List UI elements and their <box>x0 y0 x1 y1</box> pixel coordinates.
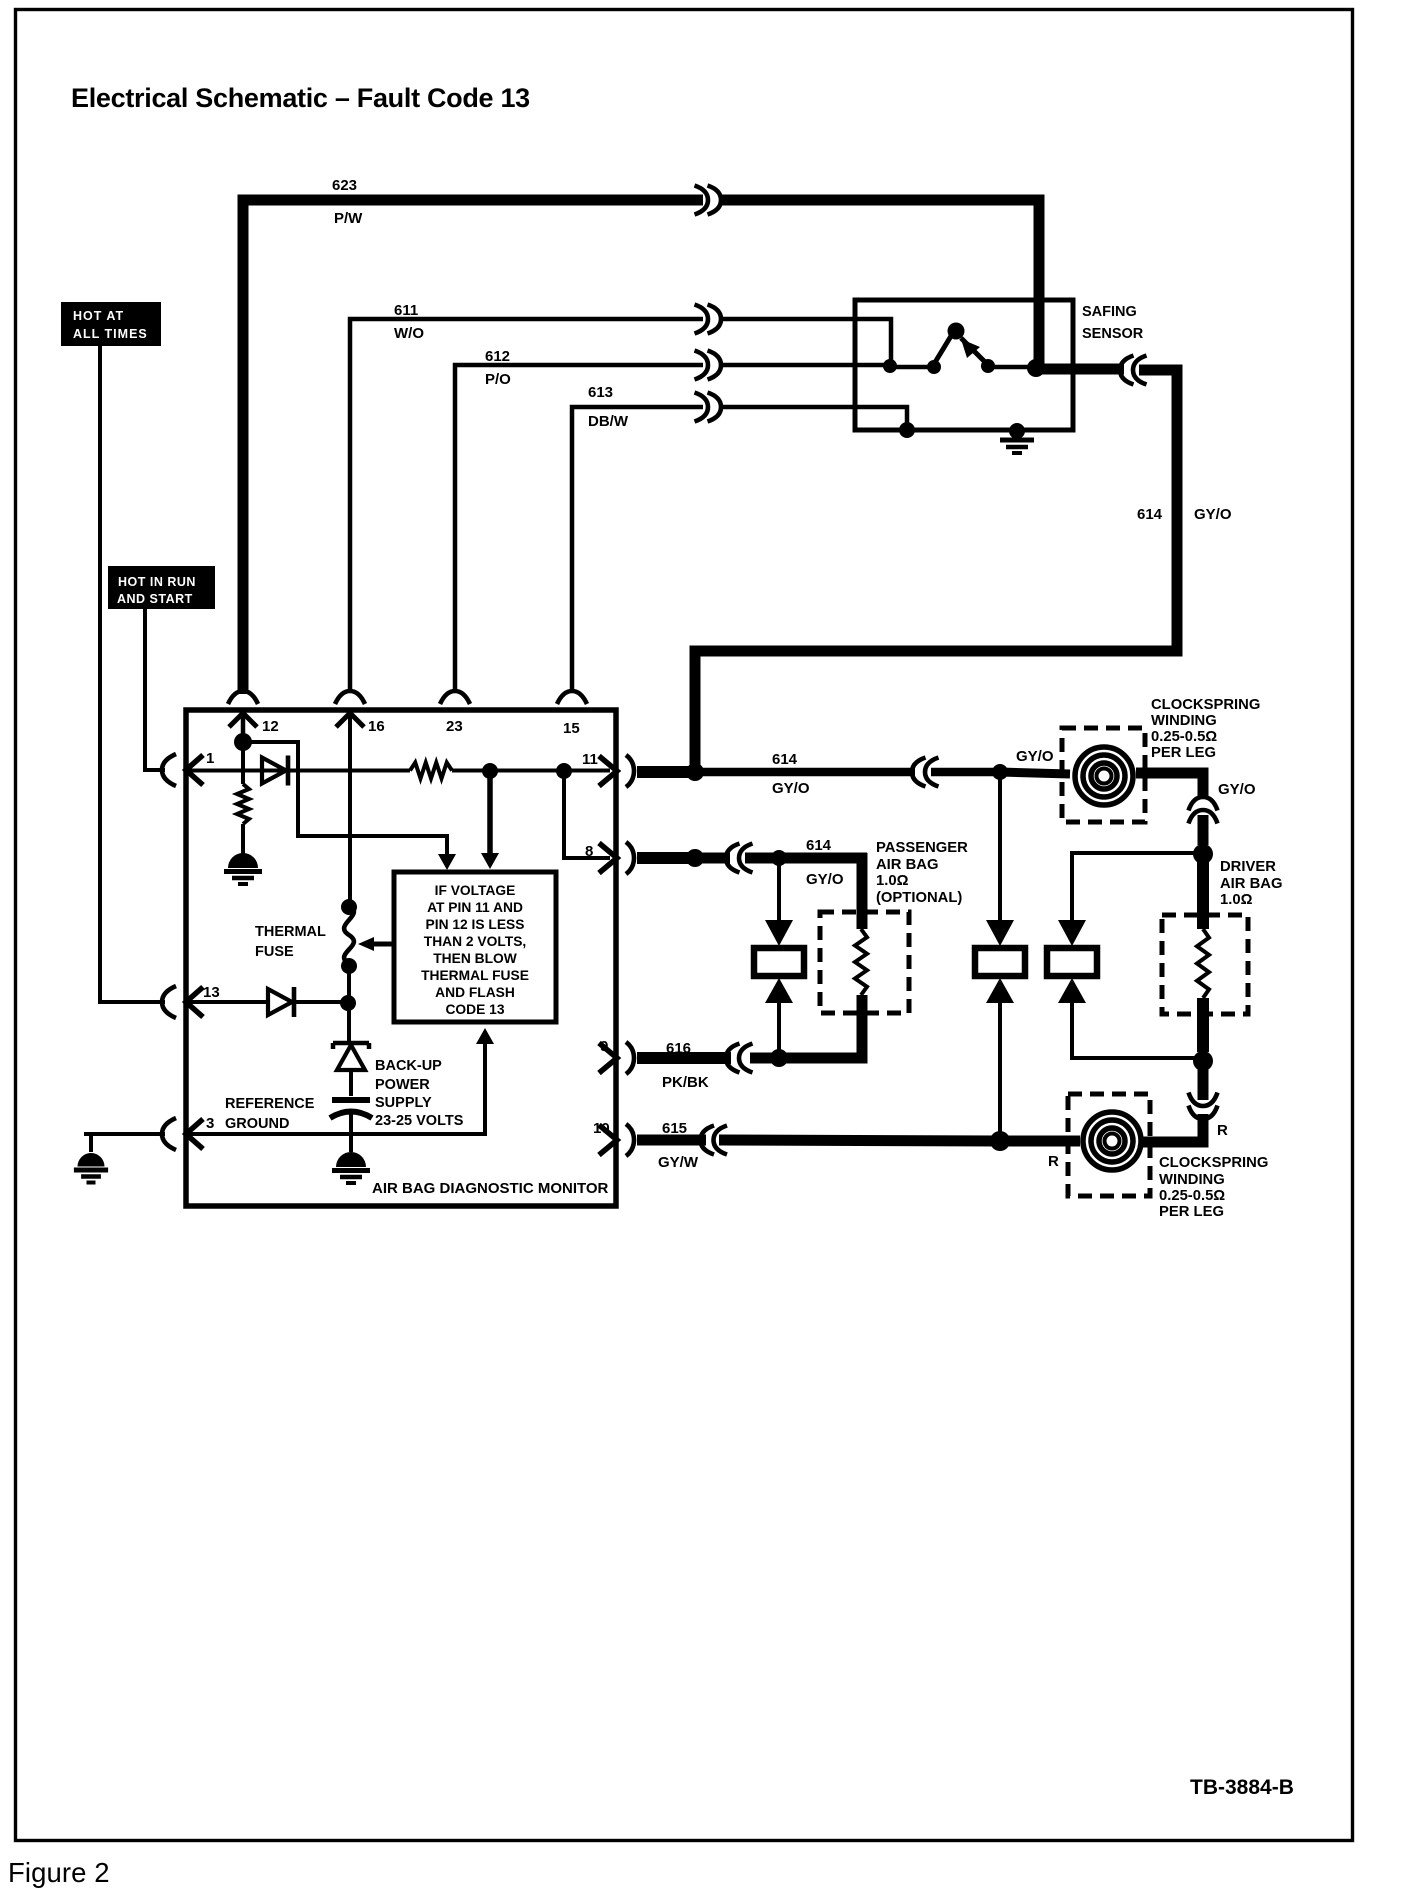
svg-text:PIN 12 IS LESS: PIN 12 IS LESS <box>426 917 525 932</box>
svg-text:AT PIN 11 AND: AT PIN 11 AND <box>427 900 523 915</box>
svg-text:HOT IN RUN: HOT IN RUN <box>118 575 196 589</box>
svg-text:R: R <box>1217 1122 1228 1139</box>
svg-text:613: 613 <box>588 384 613 401</box>
svg-text:23: 23 <box>446 718 463 735</box>
svg-text:AIR BAG: AIR BAG <box>1220 876 1282 892</box>
svg-text:1.0Ω: 1.0Ω <box>876 873 909 889</box>
svg-text:W/O: W/O <box>394 325 424 342</box>
svg-text:SUPPLY: SUPPLY <box>375 1095 432 1111</box>
svg-text:SAFING: SAFING <box>1082 304 1137 320</box>
svg-text:CLOCKSPRING: CLOCKSPRING <box>1151 697 1260 713</box>
svg-text:614: 614 <box>1137 506 1163 523</box>
svg-text:WINDING: WINDING <box>1159 1172 1225 1188</box>
svg-text:0.25-0.5Ω: 0.25-0.5Ω <box>1159 1188 1225 1204</box>
svg-text:623: 623 <box>332 177 357 194</box>
svg-text:DB/W: DB/W <box>588 413 629 430</box>
svg-text:612: 612 <box>485 348 510 365</box>
svg-text:DRIVER: DRIVER <box>1220 859 1276 875</box>
svg-text:AIR BAG DIAGNOSTIC MONITOR: AIR BAG DIAGNOSTIC MONITOR <box>372 1180 609 1197</box>
svg-text:616: 616 <box>666 1040 691 1057</box>
svg-text:11: 11 <box>582 751 598 768</box>
svg-text:Electrical Schematic – Fault C: Electrical Schematic – Fault Code 13 <box>71 83 530 113</box>
svg-text:AIR BAG: AIR BAG <box>876 857 938 873</box>
svg-text:0.25-0.5Ω: 0.25-0.5Ω <box>1151 729 1217 745</box>
svg-text:THEN BLOW: THEN BLOW <box>433 951 518 966</box>
svg-text:615: 615 <box>662 1120 687 1137</box>
svg-text:1.0Ω: 1.0Ω <box>1220 892 1253 908</box>
svg-text:GY/O: GY/O <box>1218 781 1256 798</box>
svg-text:GY/O: GY/O <box>1194 506 1232 523</box>
svg-text:GY/O: GY/O <box>1016 748 1054 765</box>
svg-text:REFERENCE: REFERENCE <box>225 1096 315 1112</box>
svg-text:GY/W: GY/W <box>658 1154 699 1171</box>
svg-text:THAN 2 VOLTS,: THAN 2 VOLTS, <box>424 934 526 949</box>
svg-text:GROUND: GROUND <box>225 1116 289 1132</box>
svg-text:3: 3 <box>206 1115 214 1132</box>
svg-text:AND FLASH: AND FLASH <box>435 985 515 1000</box>
svg-text:AND START: AND START <box>117 592 193 606</box>
svg-text:POWER: POWER <box>375 1077 430 1093</box>
svg-text:8: 8 <box>585 843 593 860</box>
svg-text:WINDING: WINDING <box>1151 713 1217 729</box>
svg-text:614: 614 <box>772 751 798 768</box>
svg-text:12: 12 <box>262 718 279 735</box>
svg-text:PASSENGER: PASSENGER <box>876 840 968 856</box>
svg-text:ALL TIMES: ALL TIMES <box>73 327 148 341</box>
svg-text:15: 15 <box>563 720 580 737</box>
svg-text:GY/O: GY/O <box>772 780 810 797</box>
svg-text:23-25 VOLTS: 23-25 VOLTS <box>375 1113 464 1129</box>
svg-text:BACK-UP: BACK-UP <box>375 1058 442 1074</box>
svg-text:16: 16 <box>368 718 385 735</box>
svg-text:PK/BK: PK/BK <box>662 1074 709 1091</box>
svg-text:PER LEG: PER LEG <box>1151 745 1216 761</box>
svg-text:IF VOLTAGE: IF VOLTAGE <box>435 883 516 898</box>
svg-text:P/W: P/W <box>334 210 363 227</box>
svg-text:13: 13 <box>203 984 220 1001</box>
svg-text:R: R <box>1048 1153 1059 1170</box>
svg-text:HOT AT: HOT AT <box>73 309 124 323</box>
svg-text:P/O: P/O <box>485 371 511 388</box>
svg-text:SENSOR: SENSOR <box>1082 326 1144 342</box>
svg-text:614: 614 <box>806 837 832 854</box>
svg-text:1: 1 <box>206 750 214 767</box>
svg-text:TB-3884-B: TB-3884-B <box>1190 1776 1294 1799</box>
svg-text:PER LEG: PER LEG <box>1159 1204 1224 1220</box>
svg-text:CLOCKSPRING: CLOCKSPRING <box>1159 1155 1268 1171</box>
svg-text:611: 611 <box>394 302 418 319</box>
svg-text:FUSE: FUSE <box>255 944 294 960</box>
svg-text:9: 9 <box>600 1038 608 1055</box>
svg-text:THERMAL FUSE: THERMAL FUSE <box>421 968 529 983</box>
svg-text:THERMAL: THERMAL <box>255 924 326 940</box>
svg-text:CODE 13: CODE 13 <box>445 1002 504 1017</box>
svg-text:GY/O: GY/O <box>806 871 844 888</box>
svg-text:Figure 2: Figure 2 <box>8 1857 110 1888</box>
svg-text:(OPTIONAL): (OPTIONAL) <box>876 890 962 906</box>
svg-text:10: 10 <box>593 1120 610 1137</box>
